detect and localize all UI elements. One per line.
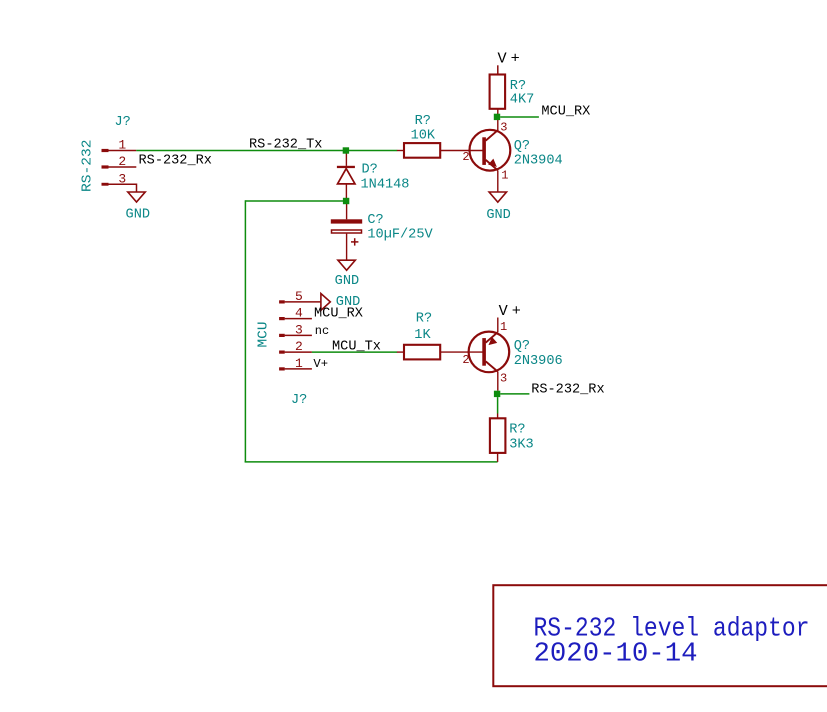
connector J2 pin 1 bbox=[279, 367, 312, 370]
transistor Q1 circle bbox=[470, 130, 511, 171]
connector J2 pin 3 bbox=[279, 334, 312, 337]
junction node D (collector / RS-232_Rx) bbox=[494, 391, 500, 397]
wire vertical left bus down bbox=[244, 200, 246, 462]
svg-text:RS-232: RS-232 bbox=[80, 140, 95, 193]
svg-text:MCU_Tx: MCU_Tx bbox=[332, 340, 381, 355]
resistor R2 value 10K bbox=[411, 129, 436, 144]
Q1 pin number 1 bbox=[501, 169, 508, 183]
pin number 4 bbox=[295, 306, 303, 321]
resistor R3 reference R? bbox=[416, 312, 432, 327]
connector J1 pin 3 bbox=[102, 183, 137, 192]
capacitor reference C? bbox=[367, 213, 383, 228]
svg-text:3: 3 bbox=[500, 121, 507, 135]
capacitor value 10µF/25V bbox=[367, 227, 433, 242]
connector J2 pin 5 bbox=[279, 300, 321, 303]
capacitor C1 top pin bbox=[346, 204, 348, 219]
resistor R1 value 4K7 bbox=[510, 92, 534, 107]
transistor Q1 reference Q? bbox=[514, 139, 530, 154]
resistor R2 reference R? bbox=[415, 114, 431, 129]
power symbol V+ (top) text bbox=[498, 50, 524, 68]
svg-text:MCU_RX: MCU_RX bbox=[314, 307, 363, 322]
junction node B (cap tap) bbox=[343, 198, 349, 204]
diode D1 cathode bar bbox=[337, 166, 355, 168]
pin number 3 bbox=[295, 323, 303, 338]
connector J1 pin 2 bbox=[102, 165, 137, 168]
resistor R1 body bbox=[490, 75, 506, 109]
diode D1 top pin wire bbox=[345, 151, 347, 166]
svg-text:D?: D? bbox=[362, 162, 378, 177]
title block frame bbox=[493, 585, 827, 686]
svg-text:2: 2 bbox=[118, 154, 126, 169]
svg-text:2: 2 bbox=[462, 353, 469, 367]
resistor R3 left pin bbox=[397, 351, 404, 353]
svg-text:3K3: 3K3 bbox=[509, 437, 533, 452]
svg-text:GND: GND bbox=[126, 208, 150, 223]
svg-text:Q?: Q? bbox=[514, 339, 530, 354]
svg-text:nc: nc bbox=[315, 324, 329, 338]
label MCU_RX at J2 pin 4 bbox=[314, 307, 363, 322]
power symbol V+ (top) pin bbox=[497, 65, 499, 74]
Q2 pin number 1 bbox=[500, 320, 507, 334]
capacitor C1 bottom plate bbox=[332, 230, 362, 233]
power symbol V+ (Q2) text bbox=[499, 302, 525, 320]
svg-text:4K7: 4K7 bbox=[510, 92, 534, 107]
transistor Q2 collector diagonal bbox=[486, 361, 498, 371]
resistor R4 value 3K3 bbox=[509, 437, 533, 452]
resistor R4 body bbox=[490, 418, 506, 453]
label nc at J2 pin 3 bbox=[315, 324, 329, 338]
svg-text:1K: 1K bbox=[414, 328, 431, 343]
wire junction D to R4 bbox=[497, 397, 499, 413]
resistor R4 bottom pin bbox=[497, 453, 499, 462]
svg-text:RS-232_Rx: RS-232_Rx bbox=[139, 154, 212, 169]
wire RS-232_Tx net (pin1 to R2) bbox=[136, 150, 397, 152]
wire MCU_RX net bbox=[500, 116, 539, 118]
capacitor C1 top plate bbox=[331, 219, 362, 223]
svg-text:MCU: MCU bbox=[257, 322, 272, 348]
transistor Q1 emitter arrow bbox=[489, 160, 496, 167]
resistor R2 right pin bbox=[440, 150, 482, 152]
resistor R2 left pin bbox=[397, 150, 404, 152]
diode value 1N4148 bbox=[361, 177, 410, 192]
connector J2 reference J? bbox=[291, 393, 307, 408]
date text 2020-10-14 bbox=[534, 640, 698, 670]
connector J1 pin 1 bbox=[102, 149, 137, 152]
svg-text:10K: 10K bbox=[411, 129, 436, 144]
connector J2 value MCU (vertical) bbox=[257, 322, 272, 348]
resistor R1 bottom pin bbox=[497, 109, 499, 114]
svg-text:2N3906: 2N3906 bbox=[514, 354, 563, 369]
ground power symbol at J2 pin 5 bbox=[321, 294, 330, 311]
svg-text:3: 3 bbox=[295, 323, 303, 338]
svg-text:V+: V+ bbox=[498, 50, 524, 68]
resistor R1 reference R? bbox=[510, 79, 526, 94]
svg-text:C?: C? bbox=[367, 213, 383, 228]
svg-text:1: 1 bbox=[500, 320, 507, 334]
Q2 pin number 3 bbox=[500, 371, 507, 385]
svg-text:V+: V+ bbox=[313, 357, 328, 371]
pin number 1 bbox=[295, 356, 303, 371]
pin number 2 bbox=[295, 339, 303, 354]
ground symbol at C1 bbox=[338, 260, 355, 270]
Q1 pin number 2 bbox=[462, 150, 469, 164]
pin number 1 bbox=[118, 138, 126, 153]
resistor R4 reference R? bbox=[509, 422, 525, 437]
ground text GND at C1 bbox=[335, 274, 359, 289]
capacitor C1 plus sign bbox=[351, 238, 358, 245]
svg-text:GND: GND bbox=[335, 274, 359, 289]
transistor Q1 emitter pin wire bbox=[497, 170, 499, 192]
transistor Q2 emitter diagonal bbox=[486, 332, 498, 342]
svg-text:MCU_RX: MCU_RX bbox=[541, 105, 590, 120]
svg-text:2020-10-14: 2020-10-14 bbox=[534, 640, 698, 670]
wire bottom horizontal to R4 bbox=[245, 461, 498, 463]
transistor Q2 value 2N3906 bbox=[514, 354, 563, 369]
junction node A (diode tap) bbox=[343, 147, 349, 153]
diode D1 triangle bbox=[338, 169, 356, 184]
svg-text:10µF/25V: 10µF/25V bbox=[367, 227, 433, 242]
ground text GND at J1 bbox=[126, 208, 150, 223]
connector J2 pin 4 bbox=[279, 317, 312, 320]
resistor R4 top pin bbox=[497, 414, 499, 419]
wire from node B going left bbox=[245, 200, 343, 202]
label MCU_Tx bbox=[332, 340, 381, 355]
resistor R3 right pin bbox=[440, 351, 482, 353]
wire RS-232_Rx net bbox=[500, 393, 529, 395]
svg-text:1: 1 bbox=[118, 138, 126, 153]
svg-text:1: 1 bbox=[295, 356, 303, 371]
svg-text:GND: GND bbox=[486, 208, 510, 223]
svg-text:RS-232_Tx: RS-232_Tx bbox=[249, 137, 322, 152]
svg-text:R?: R? bbox=[415, 114, 431, 129]
svg-text:2: 2 bbox=[462, 150, 469, 164]
label V+ at J2 pin 1 bbox=[313, 357, 328, 371]
transistor Q1 value 2N3904 bbox=[514, 154, 563, 169]
transistor Q1 collector pin wire bbox=[497, 114, 499, 131]
svg-text:1N4148: 1N4148 bbox=[361, 177, 410, 192]
transistor Q2 reference Q? bbox=[514, 339, 530, 354]
svg-text:RS-232_Rx: RS-232_Rx bbox=[531, 383, 604, 398]
label RS-232_Rx on pin 2 bbox=[139, 154, 212, 169]
svg-text:J?: J? bbox=[291, 393, 307, 408]
resistor R3 value 1K bbox=[414, 328, 431, 343]
capacitor C1 bottom pin bbox=[346, 234, 348, 260]
ground symbol at J1 pin 3 bbox=[128, 192, 145, 202]
transistor Q2 emitter arrow (PNP, points to base) bbox=[489, 338, 496, 345]
transistor Q1 collector diagonal bbox=[486, 130, 498, 140]
svg-text:5: 5 bbox=[295, 289, 303, 304]
transistor Q2 base bar bbox=[482, 338, 486, 366]
ground symbol at Q1 emitter bbox=[489, 192, 506, 202]
pin number 5 bbox=[295, 289, 303, 304]
label RS-232_Tx bbox=[249, 137, 322, 152]
svg-text:4: 4 bbox=[295, 306, 303, 321]
svg-text:Q?: Q? bbox=[514, 139, 530, 154]
svg-text:3: 3 bbox=[118, 171, 126, 186]
pin number 3 bbox=[118, 171, 126, 186]
svg-text:2N3904: 2N3904 bbox=[514, 154, 563, 169]
svg-text:3: 3 bbox=[500, 371, 507, 385]
svg-text:1: 1 bbox=[501, 169, 508, 183]
svg-text:2: 2 bbox=[295, 339, 303, 354]
label RS-232_Rx (bottom) bbox=[531, 383, 604, 398]
transistor Q1 base bar bbox=[482, 137, 486, 165]
diode D1 bottom pin wire bbox=[345, 185, 347, 201]
wire MCU_TX net bbox=[312, 351, 397, 353]
connector J2 pin 2 bbox=[279, 351, 312, 354]
Q2 pin number 2 bbox=[462, 353, 469, 367]
title text RS-232 level adaptor bbox=[534, 615, 810, 645]
diode reference D? bbox=[362, 162, 378, 177]
resistor R2 body bbox=[404, 143, 440, 158]
svg-text:V+: V+ bbox=[499, 302, 525, 320]
pin number 2 bbox=[118, 154, 126, 169]
svg-text:R?: R? bbox=[416, 312, 432, 327]
svg-text:R?: R? bbox=[509, 422, 525, 437]
label MCU_RX (top) bbox=[541, 105, 590, 120]
connector J1 value RS-232 (vertical) bbox=[80, 140, 95, 193]
svg-text:J?: J? bbox=[115, 115, 131, 130]
ground text GND at J2 pin 5 bbox=[336, 295, 360, 310]
Q1 pin number 3 bbox=[500, 121, 507, 135]
transistor Q2 circle bbox=[469, 332, 510, 373]
transistor Q1 emitter diagonal bbox=[486, 160, 498, 171]
ground text GND at Q1 bbox=[486, 208, 510, 223]
power symbol V+ (Q2) pin wire bbox=[497, 318, 499, 333]
resistor R3 body bbox=[404, 345, 440, 360]
connector J1 reference J? bbox=[115, 115, 131, 130]
transistor Q2 collector pin wire bbox=[497, 372, 499, 391]
junction node C (collector / MCU_RX) bbox=[494, 114, 500, 120]
